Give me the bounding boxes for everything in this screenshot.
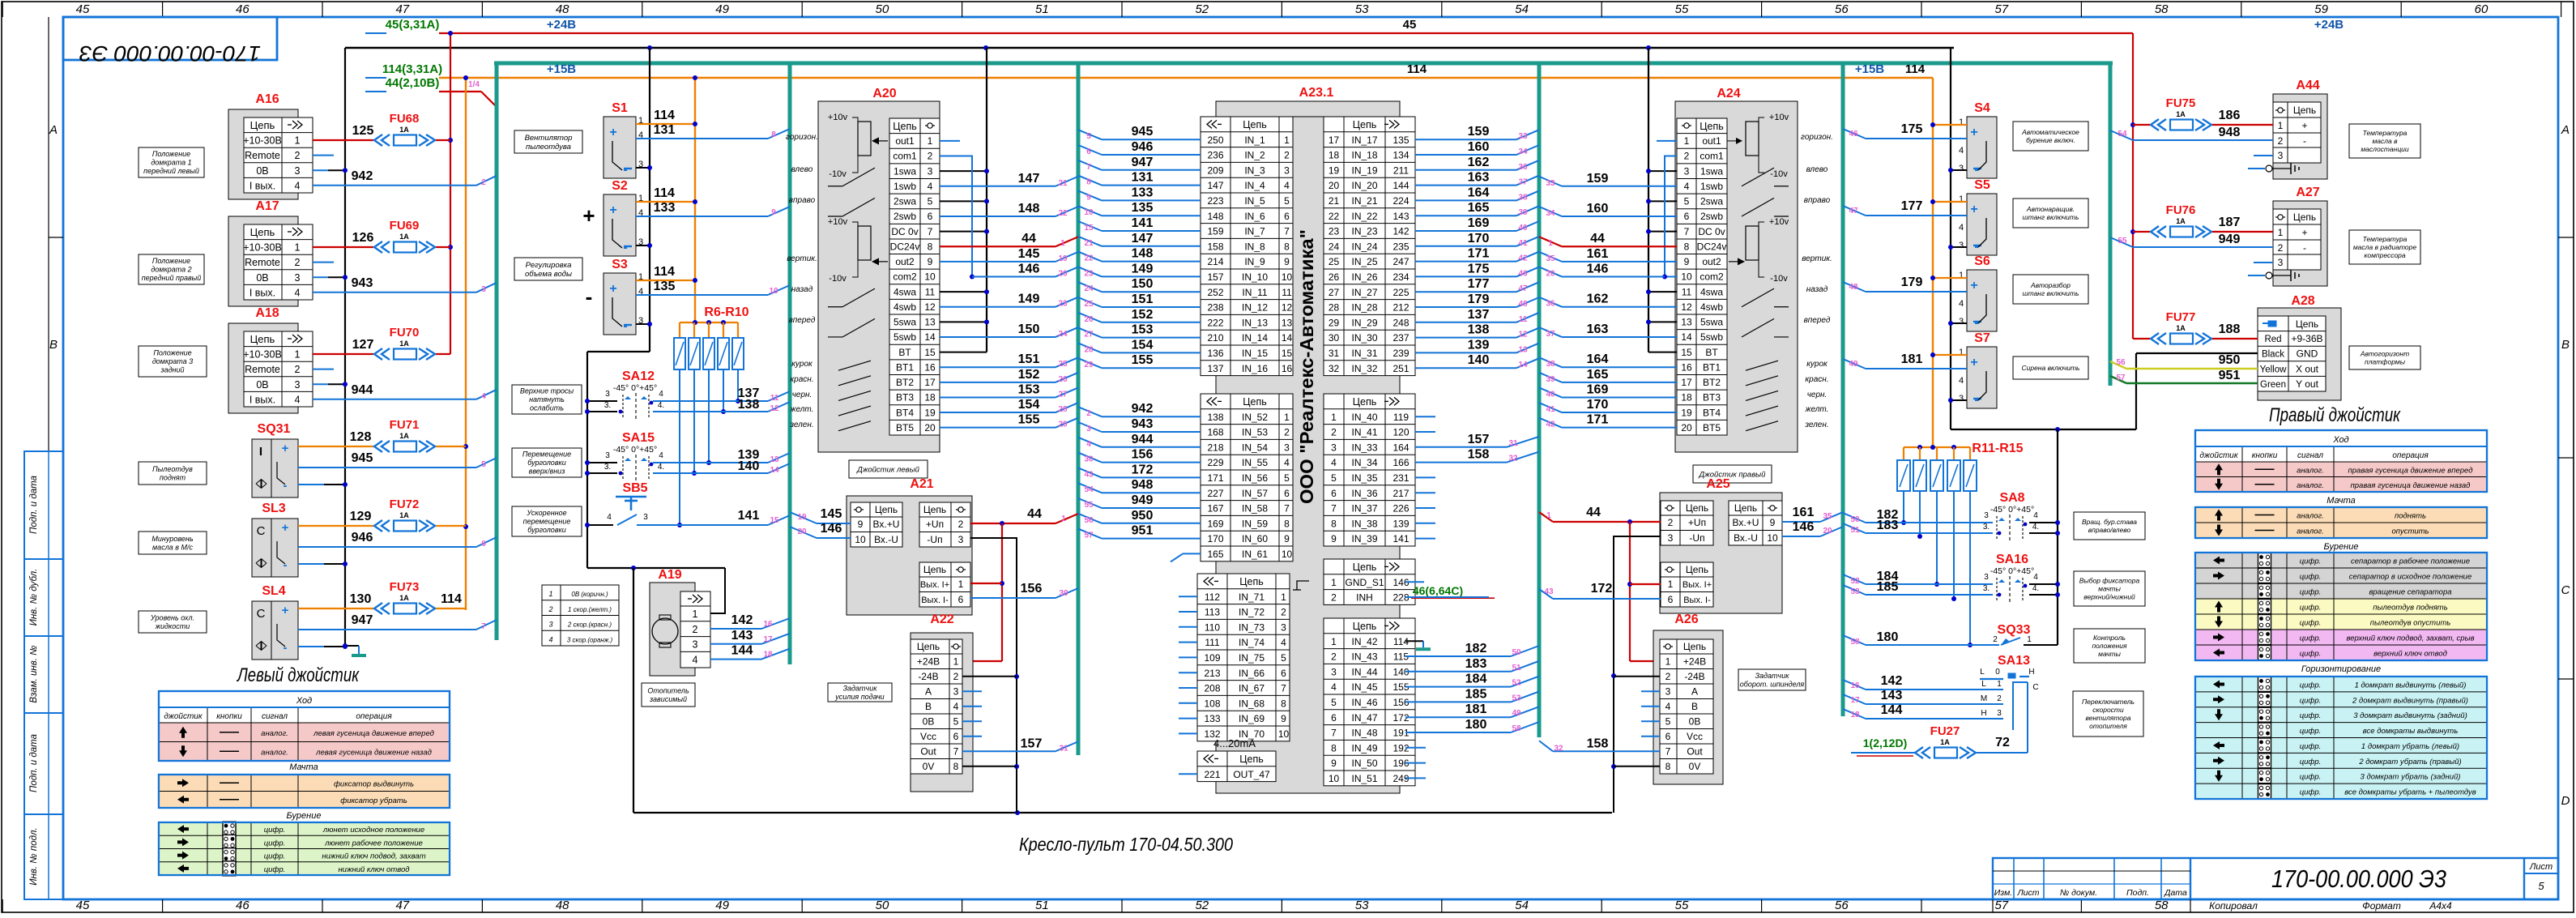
svg-text:55: 55 — [1675, 899, 1689, 912]
svg-text:239: 239 — [1392, 348, 1409, 359]
svg-text:IN_45: IN_45 — [1351, 681, 1377, 693]
wire A22 157 — [962, 750, 1056, 752]
wire OUT_47 stub — [1179, 773, 1197, 775]
svg-text:+: + — [1970, 356, 1977, 369]
svg-text:180: 180 — [1465, 718, 1487, 732]
svg-text:4: 4 — [295, 287, 301, 298]
svg-text:187: 187 — [2219, 216, 2241, 229]
svg-text:8: 8 — [1684, 241, 1690, 252]
svg-text:вращение сепаратора: вращение сепаратора — [2369, 588, 2451, 597]
svg-text:1swb: 1swb — [1700, 181, 1723, 192]
svg-text:бурение включ.: бурение включ. — [2026, 136, 2075, 144]
svg-text:3: 3 — [693, 639, 698, 651]
svg-text:курок: курок — [1806, 360, 1828, 369]
wire S6 179 — [1866, 291, 1967, 292]
wire A23.1 out 162 — [1415, 169, 1516, 171]
svg-text:170-00.00.000 Э3: 170-00.00.000 Э3 — [79, 41, 261, 66]
svg-text:3: 3 — [1284, 442, 1290, 453]
svg-text:Цепь: Цепь — [1243, 119, 1266, 130]
wire S5 177 — [1866, 215, 1967, 216]
svg-text:+9-36В: +9-36В — [2291, 333, 2322, 344]
svg-text:17: 17 — [1681, 377, 1692, 388]
svg-text:948: 948 — [1132, 478, 1154, 492]
svg-text:2: 2 — [2278, 135, 2284, 147]
svg-text:Out: Out — [1687, 746, 1703, 758]
svg-text:2: 2 — [1997, 694, 2002, 703]
svg-text:красн.: красн. — [790, 375, 813, 384]
svg-text:IN_61: IN_61 — [1242, 549, 1268, 560]
wire A18 current out 944 — [313, 399, 476, 400]
svg-text:цифр.: цифр. — [2300, 711, 2322, 720]
svg-text:4: 4 — [2033, 573, 2038, 582]
svg-text:171: 171 — [1207, 472, 1223, 484]
svg-text:вправо: вправо — [789, 196, 816, 205]
svg-text:1: 1 — [1668, 579, 1674, 590]
svg-text:3: 3 — [1281, 621, 1286, 633]
wire A16 +10-30V — [313, 139, 373, 141]
svg-text:29: 29 — [1329, 317, 1340, 328]
svg-text:5: 5 — [1331, 697, 1337, 708]
black 0V top bus — [345, 47, 1954, 49]
label box fan — [514, 130, 582, 153]
svg-text:171: 171 — [1468, 247, 1490, 261]
svg-text:влево: влево — [1806, 165, 1828, 174]
svg-text:183: 183 — [1877, 519, 1899, 532]
svg-text:-45° 0°+45°: -45° 0°+45° — [613, 445, 657, 455]
svg-text:1: 1 — [1281, 591, 1286, 603]
svg-text:IN_71: IN_71 — [1239, 591, 1265, 603]
svg-text:28: 28 — [1329, 302, 1340, 314]
wire A28 950 yellow — [2126, 368, 2258, 369]
svg-text:передний левый: передний левый — [143, 167, 199, 175]
svg-text:185: 185 — [1465, 687, 1487, 701]
svg-text:IN_41: IN_41 — [1351, 427, 1377, 438]
svg-text:47: 47 — [1849, 207, 1858, 216]
orange +15V right feed — [1932, 78, 1934, 447]
svg-text:111: 111 — [1205, 637, 1220, 648]
svg-text:IN_67: IN_67 — [1239, 683, 1265, 694]
svg-text:9: 9 — [1684, 256, 1690, 267]
svg-text:142: 142 — [1881, 674, 1903, 688]
svg-text:BT1: BT1 — [1703, 361, 1721, 373]
wire R1x lead 2432 — [1969, 491, 1971, 645]
wire R1x lead 2412 — [1953, 491, 1955, 599]
svg-text:2: 2 — [693, 624, 698, 635]
wire IN_42 ground — [1405, 640, 1423, 642]
svg-text:21: 21 — [1058, 179, 1068, 188]
svg-text:цифр.: цифр. — [2300, 573, 2322, 582]
svg-text:com2: com2 — [1700, 271, 1724, 283]
wire SQ31 signal — [298, 467, 476, 468]
wire SA8 right terminals — [2029, 522, 2058, 523]
svg-text:4: 4 — [1086, 440, 1091, 449]
svg-text:144: 144 — [731, 644, 753, 658]
svg-text:20: 20 — [1058, 269, 1068, 278]
svg-text:жидкости: жидкости — [155, 622, 190, 630]
svg-text:out1: out1 — [895, 135, 915, 147]
svg-text:IN_48: IN_48 — [1351, 728, 1377, 739]
svg-text:желт.: желт. — [790, 405, 814, 414]
wire A23.1 in 151 — [1102, 306, 1201, 308]
svg-text:+: + — [2301, 120, 2307, 131]
svg-text:52: 52 — [1195, 2, 1209, 16]
svg-text:S1: S1 — [612, 101, 628, 115]
svg-text:+: + — [282, 521, 289, 535]
wire A44 186 — [2212, 124, 2273, 126]
svg-text:4: 4 — [1331, 457, 1337, 468]
svg-text:цифр.: цифр. — [2300, 557, 2322, 566]
svg-text:48: 48 — [1518, 300, 1528, 309]
svg-text:IN_72: IN_72 — [1239, 607, 1265, 618]
svg-text:54: 54 — [2118, 130, 2127, 139]
svg-text:50: 50 — [1850, 515, 1860, 524]
svg-text:Сирена включить: Сирена включить — [2021, 364, 2079, 372]
svg-text:Задатчик: Задатчик — [843, 684, 878, 692]
svg-text:37: 37 — [1518, 178, 1528, 187]
svg-text:аналог.: аналог. — [2297, 512, 2324, 521]
svg-text:мачты: мачты — [2098, 584, 2121, 592]
speed legend table — [542, 585, 619, 646]
svg-text:IN_8: IN_8 — [1244, 241, 1265, 252]
svg-text:-: - — [284, 558, 288, 572]
svg-text:172: 172 — [1132, 463, 1154, 476]
wire S4 175 — [1866, 138, 1967, 139]
svg-text:133: 133 — [1132, 186, 1154, 199]
svg-text:153: 153 — [1132, 323, 1154, 337]
svg-text:30: 30 — [1084, 455, 1094, 464]
svg-text:верхний ключ отвод: верхний ключ отвод — [2373, 650, 2447, 659]
svg-text:110: 110 — [1205, 621, 1220, 633]
svg-text:208: 208 — [1204, 683, 1220, 694]
svg-text:154: 154 — [1132, 338, 1154, 352]
svg-text:BT5: BT5 — [896, 422, 914, 433]
wire A23.1 out 140 — [1415, 367, 1516, 369]
wire S5 114 orange — [1933, 201, 1967, 203]
svg-text:19: 19 — [1058, 254, 1068, 263]
svg-text:15: 15 — [1084, 224, 1094, 233]
svg-text:-24В: -24В — [1684, 671, 1704, 682]
svg-text:214: 214 — [1207, 256, 1223, 267]
svg-text:9: 9 — [771, 208, 776, 217]
A23.1 table OUT_47 — [1197, 751, 1276, 782]
svg-text:5: 5 — [928, 196, 933, 207]
svg-text:BT4: BT4 — [896, 407, 914, 418]
svg-text:вертик.: вертик. — [1802, 254, 1832, 263]
svg-text:вперед: вперед — [1804, 316, 1831, 325]
svg-text:943: 943 — [1132, 417, 1154, 431]
svg-text:аналог.: аналог. — [2297, 466, 2324, 475]
svg-text:4swb: 4swb — [893, 301, 916, 313]
svg-text:IN_13: IN_13 — [1242, 317, 1268, 328]
wire A19 142 — [710, 628, 761, 630]
wire 184 — [1405, 686, 1511, 688]
svg-text:GND: GND — [2297, 348, 2318, 360]
svg-text:все домкраты выдвинуть: все домкраты выдвинуть — [2363, 727, 2458, 736]
svg-text:942: 942 — [1132, 402, 1154, 416]
svg-text:5swa: 5swa — [893, 317, 916, 328]
wire A24 161 — [1562, 261, 1677, 263]
SA13 common — [2012, 681, 2028, 683]
label box A27 — [2349, 230, 2420, 264]
svg-text:57: 57 — [1994, 2, 2008, 16]
wire A23.1 158 right mid — [1415, 462, 1507, 463]
svg-text:зависимый: зависимый — [649, 695, 687, 703]
svg-text:53: 53 — [1355, 2, 1369, 16]
svg-text:49: 49 — [715, 2, 729, 16]
A20 black taps — [986, 48, 987, 352]
svg-text:35: 35 — [1546, 254, 1555, 263]
wire A23.1 in 156 — [1102, 462, 1201, 463]
svg-text:46: 46 — [236, 2, 249, 16]
wire SA16 in 184 — [1866, 583, 1993, 585]
svg-text:942: 942 — [352, 169, 373, 183]
svg-text:949: 949 — [2219, 233, 2241, 246]
svg-text:A17: A17 — [255, 199, 279, 213]
svg-text:2: 2 — [1668, 517, 1674, 528]
svg-text:+: + — [282, 604, 289, 617]
wire fuse FU75 feed — [2133, 124, 2150, 126]
wire SA12 left terminals — [587, 400, 617, 402]
svg-text:41: 41 — [1518, 239, 1528, 248]
svg-text:FU76: FU76 — [2166, 203, 2196, 217]
svg-text:170-00.00.000 Э3: 170-00.00.000 Э3 — [2271, 865, 2446, 893]
svg-text:IN_19: IN_19 — [1351, 164, 1377, 176]
svg-text:225: 225 — [1392, 287, 1409, 298]
svg-text:-45° 0°+45°: -45° 0°+45° — [613, 383, 657, 393]
svg-text:55: 55 — [2118, 237, 2127, 246]
svg-text:Цепь: Цепь — [1353, 396, 1376, 408]
svg-text:3: 3 — [295, 379, 301, 391]
svg-text:Отопитель: Отопитель — [647, 686, 689, 694]
wire SQ31 plus — [298, 446, 373, 447]
svg-text:0В (коричн.): 0В (коричн.) — [571, 591, 608, 598]
svg-text:183: 183 — [1465, 657, 1487, 671]
svg-text:46: 46 — [1518, 269, 1528, 278]
wire A24 out1 stub — [1657, 140, 1677, 142]
svg-text:6: 6 — [1284, 488, 1290, 499]
wire SB5 out 141 — [637, 524, 768, 526]
svg-text:227: 227 — [1207, 488, 1223, 499]
svg-text:164: 164 — [1587, 352, 1609, 366]
svg-text:3 домкрат выдвинуть (задний): 3 домкрат выдвинуть (задний) — [2353, 711, 2467, 720]
wire A18 0V — [313, 383, 328, 385]
svg-text:8: 8 — [771, 130, 776, 139]
svg-text:домкрата 1: домкрата 1 — [151, 159, 191, 167]
svg-text:Цепь: Цепь — [1353, 621, 1376, 632]
label box spindle speed — [1738, 669, 1806, 690]
svg-text:Цепь: Цепь — [1683, 641, 1706, 652]
svg-text:A25: A25 — [1706, 477, 1729, 491]
svg-text:72: 72 — [1995, 736, 2010, 749]
wire A23.1 right mid stub 8 — [1415, 538, 1435, 540]
wire A16 current out 942 — [313, 185, 476, 186]
svg-text:Black: Black — [2262, 350, 2284, 360]
svg-text:H: H — [2028, 668, 2034, 677]
svg-text:114: 114 — [441, 592, 462, 606]
svg-text:A18: A18 — [255, 306, 279, 320]
wire A23.1 in 945 — [1102, 139, 1201, 140]
svg-text:аналог.: аналог. — [2297, 481, 2324, 490]
svg-text:цифр.: цифр. — [264, 852, 286, 861]
svg-text:11: 11 — [1519, 315, 1528, 324]
svg-text:170: 170 — [1207, 533, 1223, 544]
svg-text:15: 15 — [770, 516, 779, 525]
svg-text:IN_1: IN_1 — [1244, 134, 1265, 146]
svg-text:51: 51 — [1035, 899, 1049, 912]
svg-text:опустить: опустить — [2391, 527, 2429, 536]
label box S6 — [2013, 275, 2088, 304]
wire SA15 out 140 — [653, 472, 768, 474]
net +24V red bus — [439, 32, 2133, 34]
svg-text:BT1: BT1 — [896, 361, 914, 373]
svg-text:IN_36: IN_36 — [1351, 488, 1377, 499]
svg-text:20: 20 — [1823, 527, 1832, 536]
svg-text:5: 5 — [1331, 472, 1337, 484]
svg-text:Положение: Положение — [153, 349, 191, 357]
svg-text:15: 15 — [1282, 348, 1293, 359]
svg-text:944: 944 — [352, 383, 373, 397]
svg-text:25: 25 — [1329, 256, 1340, 267]
svg-text:7: 7 — [1284, 226, 1290, 237]
svg-text:5swa: 5swa — [1700, 317, 1723, 328]
wire S2 114 — [636, 201, 695, 203]
wire IN_51 stub — [1405, 777, 1426, 779]
svg-text:35: 35 — [1823, 512, 1832, 521]
svg-text:FU68: FU68 — [390, 112, 420, 126]
wire A23.1 out 179 — [1415, 306, 1516, 308]
svg-text:229: 229 — [1207, 457, 1223, 468]
svg-text:6: 6 — [1684, 211, 1690, 222]
wire S4 0V — [1951, 169, 1967, 171]
svg-text:22: 22 — [1058, 209, 1068, 218]
svg-text:DC24v: DC24v — [890, 241, 920, 252]
svg-text:9: 9 — [1331, 533, 1337, 544]
svg-text:4: 4 — [1959, 146, 1964, 156]
wire IN_7x stub 5 — [1179, 672, 1197, 673]
svg-text:S2: S2 — [612, 179, 628, 193]
svg-text:1A: 1A — [399, 233, 409, 241]
svg-text:181: 181 — [1465, 702, 1487, 716]
svg-text:верхний/нижний: верхний/нижний — [2083, 592, 2135, 600]
wire SA8 in 183 — [1866, 532, 1993, 534]
svg-text:IN_11: IN_11 — [1242, 287, 1267, 298]
svg-text:Вых. I-: Вых. I- — [1683, 596, 1711, 605]
svg-text:213: 213 — [1204, 668, 1220, 679]
svg-text:Цепь: Цепь — [875, 504, 898, 515]
label box fast move — [512, 506, 582, 536]
harness bus 4 — [1537, 63, 1542, 737]
svg-text:IN_18: IN_18 — [1351, 150, 1377, 161]
svg-text:175: 175 — [1468, 262, 1490, 275]
svg-text:50: 50 — [876, 2, 889, 16]
svg-text:зелен.: зелен. — [789, 421, 813, 429]
svg-text:51: 51 — [1035, 2, 1049, 16]
svg-text:Изм.: Изм. — [1994, 888, 2012, 898]
wire S1 114 — [636, 123, 695, 125]
svg-text:2swa: 2swa — [893, 196, 916, 207]
svg-text:кнопки: кнопки — [2252, 451, 2278, 460]
svg-text:BT2: BT2 — [1703, 377, 1721, 388]
wire GND_S1 46(6,64C) — [1405, 581, 1424, 583]
wire A23.1 out 169 — [1415, 230, 1516, 232]
svg-text:FU77: FU77 — [2166, 310, 2196, 324]
svg-text:6: 6 — [1284, 211, 1290, 222]
svg-text:168: 168 — [1207, 427, 1223, 438]
svg-text:159: 159 — [1207, 226, 1223, 237]
svg-text:2swb: 2swb — [893, 211, 916, 222]
svg-text:+10-30В: +10-30В — [243, 349, 282, 361]
svg-text:C: C — [2032, 683, 2038, 692]
svg-text:139: 139 — [1392, 518, 1409, 529]
svg-text:148: 148 — [1018, 202, 1040, 216]
svg-text:BT2: BT2 — [896, 377, 914, 388]
svg-text:Remote: Remote — [245, 257, 280, 268]
svg-text:IN_58: IN_58 — [1242, 503, 1268, 515]
svg-text:234: 234 — [1392, 271, 1409, 283]
svg-text:зелен.: зелен. — [1804, 421, 1828, 429]
svg-text:7: 7 — [1331, 503, 1337, 515]
svg-text:A16: A16 — [255, 92, 279, 106]
wire A26 stub 3 — [1641, 706, 1660, 707]
svg-text:251: 251 — [1392, 363, 1409, 374]
wire A17 Remote stub — [313, 262, 334, 263]
svg-text:9: 9 — [1331, 758, 1337, 769]
svg-text:180: 180 — [1877, 630, 1899, 644]
svg-text:2: 2 — [1284, 150, 1290, 161]
wire 144 — [1866, 718, 2003, 719]
svg-text:Бурение: Бурение — [2324, 542, 2359, 552]
svg-text:22: 22 — [1329, 211, 1340, 222]
svg-text:IN_20: IN_20 — [1351, 180, 1377, 191]
svg-text:26: 26 — [1058, 375, 1068, 384]
svg-text:SA13: SA13 — [1998, 654, 2030, 668]
svg-text:масла в: масла в — [2372, 137, 2398, 145]
svg-text:3 домкрат убрать (задний): 3 домкрат убрать (задний) — [2361, 773, 2461, 782]
svg-text:10: 10 — [769, 287, 778, 296]
svg-text:S4: S4 — [1974, 101, 1990, 115]
svg-text:+: + — [609, 203, 616, 217]
A21 +24V red drop — [1001, 523, 1003, 661]
label box autohorizon — [2349, 346, 2420, 369]
svg-text:B: B — [2561, 338, 2570, 352]
fuse feed red bus left — [450, 33, 451, 354]
svg-text:7: 7 — [1086, 163, 1091, 172]
svg-text:12: 12 — [1282, 302, 1293, 314]
svg-text:+24В: +24В — [547, 18, 576, 32]
svg-text:поднять: поднять — [2395, 512, 2426, 521]
svg-text:109: 109 — [1204, 652, 1220, 664]
svg-text:верхний ключ подвод, захват, с: верхний ключ подвод, захват, срыв — [2346, 634, 2474, 643]
svg-text:21: 21 — [1329, 195, 1340, 207]
svg-text:OUT_47: OUT_47 — [1233, 769, 1270, 780]
svg-text:2: 2 — [1331, 427, 1337, 438]
svg-text:165: 165 — [1207, 549, 1223, 560]
svg-text:цифр.: цифр. — [2300, 788, 2322, 797]
svg-text:SA8: SA8 — [1999, 491, 2024, 505]
svg-text:назад: назад — [1806, 285, 1828, 294]
svg-text:IN_33: IN_33 — [1351, 442, 1377, 453]
svg-text:155: 155 — [1018, 413, 1040, 427]
svg-text:169: 169 — [1468, 216, 1490, 230]
wire A28 951 green — [2126, 382, 2258, 384]
svg-text:146: 146 — [1793, 520, 1815, 534]
svg-text:0В: 0В — [256, 165, 268, 177]
svg-text:140: 140 — [738, 459, 760, 473]
svg-text:51: 51 — [1512, 664, 1521, 672]
svg-text:49: 49 — [715, 899, 729, 912]
wire A23.1 in 944 — [1102, 446, 1201, 448]
svg-text:143: 143 — [731, 629, 753, 643]
